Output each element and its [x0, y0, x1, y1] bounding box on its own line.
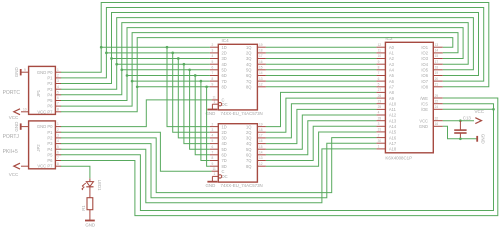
svg-text:8: 8: [212, 156, 214, 160]
IC2 SRAM K6X4008C1P body: [385, 42, 433, 153]
svg-text:14: 14: [435, 49, 439, 53]
wire PORTJ P0 to IC4 C clock: [61, 100, 212, 127]
svg-text:6Q: 6Q: [246, 153, 251, 158]
svg-text:7: 7: [57, 156, 59, 160]
svg-text:A14: A14: [389, 124, 397, 129]
svg-text:12: 12: [259, 162, 263, 166]
svg-text:21: 21: [435, 83, 439, 87]
svg-text:P2: P2: [47, 81, 53, 86]
svg-text:2: 2: [212, 43, 214, 47]
svg-text:7: 7: [212, 151, 214, 155]
svg-text:7D: 7D: [222, 79, 227, 84]
wire PORTC P0 to SRAM IO8: [61, 3, 489, 87]
svg-text:2: 2: [378, 133, 380, 137]
VCC supply arrow at PORTC: [14, 109, 20, 115]
wire IC5 1Q to SRAM A8: [266, 92, 377, 126]
junction dot C13 top: [459, 119, 462, 122]
svg-text:8: 8: [378, 66, 380, 70]
svg-text:10: 10: [378, 54, 382, 58]
junction dot 1D branch: [166, 46, 169, 49]
svg-text:15: 15: [259, 66, 263, 70]
svg-text:1: 1: [378, 145, 380, 149]
wire data line to IC4 3D: [112, 58, 210, 60]
wire PORTJ P1 to IC5 C clock: [61, 132, 212, 171]
wire PORTC P5 to SRAM IO3: [61, 28, 463, 101]
svg-text:6: 6: [57, 150, 59, 154]
svg-text:1: 1: [57, 122, 59, 126]
svg-text:VCC: VCC: [9, 115, 19, 120]
svg-text:8: 8: [212, 77, 214, 81]
IC4 OC pin stub (pin 1): [212, 103, 218, 105]
svg-text:18: 18: [259, 128, 263, 132]
wire branch to IC5 7D: [201, 81, 210, 160]
svg-text:4Q: 4Q: [246, 141, 251, 146]
IC5 OC pin bubble: [218, 175, 221, 178]
svg-text:IO2: IO2: [421, 51, 428, 56]
svg-text:A0: A0: [389, 45, 395, 50]
svg-text:A13: A13: [389, 118, 397, 123]
svg-text:32: 32: [435, 116, 439, 120]
svg-text:P3: P3: [47, 141, 53, 146]
junction dot P3/4D: [115, 63, 118, 66]
svg-text:3: 3: [57, 134, 59, 138]
wire data line to IC4 4D: [117, 63, 210, 65]
wire branch to IC5 3D: [178, 59, 210, 138]
svg-text:/OE: /OE: [421, 107, 428, 112]
IC4 left pin stubs 1D-8D: [210, 46, 218, 48]
svg-text:26: 26: [378, 94, 382, 98]
svg-text:4D: 4D: [222, 141, 227, 146]
wire PORTJ P2 to SRAM A16: [61, 138, 377, 193]
wire PORTC P4 to SRAM IO4: [61, 23, 468, 95]
wire SRAM GND: [443, 126, 477, 139]
svg-text:8Q: 8Q: [246, 164, 251, 169]
svg-text:1: 1: [214, 100, 216, 104]
wire IC5 8Q to SRAM A15: [266, 132, 377, 166]
svg-text:IO7: IO7: [421, 79, 428, 84]
svg-text:28: 28: [378, 116, 382, 120]
svg-text:5Q: 5Q: [246, 68, 251, 73]
IC5 left pin stubs 1D-8D: [210, 126, 218, 128]
svg-text:6: 6: [57, 96, 59, 100]
IC5 C pin stub (pin 11): [212, 170, 219, 172]
svg-text:A11: A11: [389, 107, 397, 112]
svg-text:5: 5: [212, 60, 214, 64]
svg-text:A7: A7: [389, 85, 395, 90]
wire IC5 7Q to SRAM A14: [266, 126, 377, 160]
svg-text:P5: P5: [47, 98, 53, 103]
svg-text:31: 31: [378, 128, 382, 132]
junction dot 7D branch: [200, 80, 203, 83]
svg-text:15: 15: [435, 54, 439, 58]
svg-text:A16: A16: [389, 135, 397, 140]
svg-text:A2: A2: [389, 56, 395, 61]
wire data line to IC4 5D: [122, 69, 210, 71]
svg-text:7: 7: [378, 71, 380, 75]
wire branch to IC5 1D: [167, 47, 210, 126]
svg-text:OC: OC: [222, 102, 228, 107]
IC2 right pin stubs IO1-IO8: [433, 46, 443, 48]
svg-text:4: 4: [212, 54, 214, 58]
ground symbol at SRAM: [476, 136, 478, 142]
ground symbol at R1: [85, 220, 95, 222]
wire IC4 6Q to SRAM A5: [266, 75, 377, 77]
svg-text:6: 6: [212, 66, 214, 70]
svg-text:6: 6: [212, 145, 214, 149]
svg-text:IO5: IO5: [421, 68, 428, 73]
junction dot 6D branch: [194, 74, 197, 77]
svg-text:P4: P4: [47, 92, 53, 97]
svg-text:IO3: IO3: [421, 56, 428, 61]
svg-text:2D: 2D: [222, 51, 227, 56]
resistor R1: [87, 198, 93, 210]
svg-text:LED1: LED1: [97, 180, 102, 191]
wire IC5 6Q to SRAM A13: [266, 121, 377, 155]
svg-text:IC2: IC2: [385, 36, 393, 41]
svg-text:6D: 6D: [222, 73, 227, 78]
svg-text:2: 2: [212, 122, 214, 126]
svg-text:7D: 7D: [222, 158, 227, 163]
svg-text:A3: A3: [389, 62, 395, 67]
svg-text:5D: 5D: [222, 68, 227, 73]
svg-text:5: 5: [57, 90, 59, 94]
svg-text:22: 22: [435, 99, 439, 103]
svg-text:3D: 3D: [222, 56, 227, 61]
connector JP2 PORTJ box: [29, 121, 56, 169]
junction dot 5D branch: [188, 68, 191, 71]
svg-text:3Q: 3Q: [246, 56, 251, 61]
svg-text:PORTC: PORTC: [3, 90, 21, 96]
ground symbol at PORTC: [20, 69, 22, 75]
svg-text:17: 17: [259, 54, 263, 58]
junction dot /OE on /CS net: [492, 108, 495, 111]
svg-text:GND: GND: [481, 134, 486, 144]
svg-text:P6: P6: [47, 158, 53, 163]
svg-text:VCC: VCC: [9, 172, 19, 177]
wire SRAM /OE branch: [443, 108, 494, 110]
junction dot P7/8D: [136, 85, 139, 88]
svg-text:A6: A6: [389, 79, 395, 84]
JP1 GND pin stub (pin 9): [21, 71, 29, 73]
junction dot 3D branch: [177, 57, 180, 60]
VCC supply arrow at PORTJ: [14, 163, 20, 169]
svg-text:7Q: 7Q: [246, 158, 251, 163]
svg-text:A4: A4: [389, 68, 395, 73]
IC5 OC ground wire: [211, 176, 213, 181]
svg-text:7: 7: [57, 102, 59, 106]
wire IC4 8Q to SRAM A7: [266, 86, 377, 88]
svg-text:IO8: IO8: [421, 85, 428, 90]
svg-text:PORTJ: PORTJ: [3, 134, 20, 140]
wire data line to IC4 2D: [106, 52, 209, 54]
svg-text:1D: 1D: [222, 124, 227, 129]
svg-text:JP1: JP1: [36, 89, 41, 97]
LED LED1: [86, 182, 93, 187]
svg-text:19: 19: [259, 43, 263, 47]
svg-text:2D: 2D: [222, 130, 227, 135]
junction dot P1/2D: [105, 52, 108, 55]
svg-text:10: 10: [23, 107, 27, 111]
svg-text:VCC: VCC: [419, 118, 428, 123]
connector JP1 right pin stubs P0-P7: [55, 71, 61, 73]
wire PORTJ P7 to LED1: [61, 166, 90, 178]
svg-text:VCC P7: VCC P7: [37, 164, 53, 169]
junction dot 4D branch: [183, 63, 186, 66]
svg-text:2Q: 2Q: [246, 130, 251, 135]
svg-text:14: 14: [259, 71, 263, 75]
IC4 74AC573 body: [218, 44, 257, 110]
svg-text:1Q: 1Q: [246, 45, 251, 50]
wire PORTC P3 to SRAM IO5: [61, 18, 474, 90]
junction dot P6/7D: [131, 80, 134, 83]
wire data line to IC4 7D: [132, 80, 210, 82]
capacitor C13: [459, 121, 461, 130]
svg-text:3Q: 3Q: [246, 136, 251, 141]
svg-text:13: 13: [259, 77, 263, 81]
svg-text:25: 25: [378, 105, 382, 109]
svg-text:24: 24: [435, 105, 439, 109]
junction dot P0/1D: [100, 46, 103, 49]
wire IC4 1Q to SRAM A0: [266, 46, 377, 48]
svg-text:9: 9: [24, 68, 26, 72]
wire SRAM VCC: [443, 120, 474, 122]
svg-text:GND: GND: [14, 66, 19, 77]
svg-text:17: 17: [435, 60, 439, 64]
svg-text:8: 8: [57, 107, 59, 111]
svg-text:A5: A5: [389, 73, 395, 78]
svg-text:A1: A1: [389, 51, 395, 56]
svg-text:A10: A10: [389, 101, 397, 106]
svg-text:P1: P1: [47, 76, 53, 81]
wire data line to IC4 1D: [101, 46, 210, 48]
junction dot P5/6D: [126, 74, 129, 77]
wire IC5 4Q to SRAM A11: [266, 109, 377, 143]
svg-text:P6: P6: [47, 104, 53, 109]
svg-text:14: 14: [259, 151, 263, 155]
IC2 power pin stubs VCC GND: [433, 120, 443, 122]
svg-text:1: 1: [214, 172, 216, 176]
wire branch to IC5 5D: [190, 70, 210, 149]
svg-text:11: 11: [378, 49, 382, 53]
IC5 74AC573 body: [218, 124, 257, 182]
svg-text:R1: R1: [81, 205, 86, 211]
svg-text:3D: 3D: [222, 136, 227, 141]
svg-text:16: 16: [259, 139, 263, 143]
wire PORTJ P3 to SRAM A17: [61, 143, 377, 198]
wire IC4 7Q to SRAM A6: [266, 80, 377, 82]
svg-text:15: 15: [259, 145, 263, 149]
connector JP2 right pin stubs P0-P7: [55, 126, 61, 128]
svg-text:17: 17: [259, 134, 263, 138]
svg-text:GND P0: GND P0: [37, 124, 53, 129]
IC5 right pin stubs 1Q-8Q: [257, 126, 266, 128]
svg-text:P1: P1: [47, 130, 53, 135]
svg-text:4: 4: [57, 85, 59, 89]
wire R1 to ground: [89, 210, 91, 221]
wire PORTJ P5 to SRAM /CS: [61, 104, 494, 211]
svg-text:IO6: IO6: [421, 73, 428, 78]
svg-text:2: 2: [57, 128, 59, 132]
IC4 OC ground wire: [211, 104, 213, 109]
wire IC5 3Q to SRAM A10: [266, 104, 377, 138]
JP2 VCC pin stub (pin 10): [21, 165, 29, 167]
svg-text:11: 11: [213, 167, 217, 171]
wire PORTJ P4 to SRAM A18: [61, 149, 377, 203]
IC2 control pin stubs /WE /CS /OE: [433, 97, 443, 99]
wire data line to IC4 6D: [127, 75, 210, 77]
svg-text:3: 3: [57, 79, 59, 83]
svg-text:27: 27: [378, 88, 382, 92]
svg-text:5: 5: [57, 145, 59, 149]
svg-text:A18: A18: [389, 147, 397, 152]
connector JP1 PORTC box: [29, 66, 56, 114]
svg-text:C13: C13: [463, 115, 472, 120]
ground symbol at IC4 OC: [207, 109, 217, 111]
svg-text:4: 4: [212, 134, 214, 138]
svg-text:A15: A15: [389, 130, 397, 135]
svg-text:PKII+5: PKII+5: [3, 149, 18, 155]
IC4 OC pin bubble: [218, 103, 221, 106]
svg-text:IC4: IC4: [222, 38, 230, 43]
svg-text:74XX-EU_74AC573N: 74XX-EU_74AC573N: [221, 183, 263, 188]
wire IC5 5Q to SRAM A12: [266, 115, 377, 149]
svg-text:7: 7: [212, 71, 214, 75]
svg-text:P4: P4: [47, 147, 53, 152]
svg-text:8: 8: [57, 162, 59, 166]
svg-text:16: 16: [435, 122, 439, 126]
wire LED1 to R1: [89, 187, 91, 198]
svg-text:6: 6: [378, 77, 380, 81]
IC5 OC pin stub (pin 1): [212, 175, 218, 177]
svg-text:9: 9: [378, 60, 380, 64]
junction dot 2D branch: [171, 52, 174, 55]
svg-text:18: 18: [259, 49, 263, 53]
junction dot P2/3D: [110, 57, 113, 60]
svg-text:18: 18: [435, 66, 439, 70]
svg-text:29: 29: [435, 94, 439, 98]
svg-text:4: 4: [57, 139, 59, 143]
IC2 left pin stubs A0-A18: [376, 46, 385, 48]
svg-text:IO4: IO4: [421, 62, 428, 67]
svg-text:12: 12: [378, 43, 382, 47]
IC4 right pin stubs 1Q-8Q: [257, 46, 266, 48]
wire IC4 4Q to SRAM A3: [266, 63, 377, 65]
svg-text:/CS: /CS: [421, 101, 428, 106]
svg-text:1Q: 1Q: [246, 124, 251, 129]
svg-text:4: 4: [378, 111, 380, 115]
svg-text:19: 19: [259, 122, 263, 126]
svg-text:P3: P3: [47, 87, 53, 92]
junction dot C13 bottom: [459, 137, 462, 140]
junction dot P4/5D: [120, 68, 123, 71]
svg-text:OC: OC: [222, 174, 228, 179]
svg-text:GND: GND: [206, 183, 216, 188]
svg-text:JP2: JP2: [36, 144, 41, 152]
wire PORTC P2 to SRAM IO6: [61, 13, 479, 84]
svg-text:3: 3: [212, 128, 214, 132]
svg-text:74XX-EU_74AC573N: 74XX-EU_74AC573N: [221, 111, 263, 116]
VCC supply arrow at SRAM: [475, 118, 481, 124]
svg-text:P2: P2: [47, 136, 53, 141]
svg-text:GND: GND: [419, 124, 428, 129]
svg-text:13: 13: [259, 156, 263, 160]
svg-text:GND P0: GND P0: [37, 70, 53, 75]
wire data line to IC4 8D: [137, 86, 210, 88]
junction dot 8D branch: [205, 85, 208, 88]
svg-text:P5: P5: [47, 152, 53, 157]
svg-text:6Q: 6Q: [246, 73, 251, 78]
svg-text:5: 5: [212, 139, 214, 143]
svg-text:5D: 5D: [222, 147, 227, 152]
wire branch to IC5 8D: [207, 87, 210, 166]
svg-text:4Q: 4Q: [246, 62, 251, 67]
svg-text:9: 9: [212, 83, 214, 87]
svg-text:8Q: 8Q: [246, 85, 251, 90]
JP1 VCC pin stub (pin 10): [21, 111, 29, 113]
svg-text:23: 23: [378, 99, 382, 103]
svg-text:8D: 8D: [222, 85, 227, 90]
wire branch to IC5 2D: [173, 53, 210, 132]
wire branch to IC5 4D: [184, 64, 210, 143]
svg-text:3: 3: [212, 49, 214, 53]
svg-text:/WE: /WE: [420, 96, 428, 101]
ground symbol at PORTJ: [20, 123, 22, 129]
wire IC5 2Q to SRAM A9: [266, 98, 377, 132]
svg-text:GND: GND: [85, 222, 95, 227]
svg-text:K6X4008C1P: K6X4008C1P: [385, 156, 412, 161]
wire PORTJ P6 to SRAM /WE: [61, 98, 498, 216]
svg-text:30: 30: [378, 139, 382, 143]
wire IC4 2Q to SRAM A1: [266, 52, 377, 54]
svg-text:A9: A9: [389, 96, 395, 101]
svg-text:20: 20: [435, 77, 439, 81]
svg-text:4D: 4D: [222, 62, 227, 67]
svg-text:VCC: VCC: [475, 109, 485, 114]
svg-text:6D: 6D: [222, 153, 227, 158]
svg-text:16: 16: [259, 60, 263, 64]
wire IC4 5Q to SRAM A4: [266, 69, 377, 71]
svg-text:A8: A8: [389, 90, 395, 95]
svg-text:VCC P7: VCC P7: [37, 109, 53, 114]
svg-text:5: 5: [378, 83, 380, 87]
wire branch to IC5 6D: [195, 76, 210, 155]
ground symbol at IC5 OC: [207, 181, 217, 183]
JP2 GND pin stub (pin 9): [21, 126, 29, 128]
wire PORTC P1 to SRAM IO7: [61, 8, 484, 82]
svg-text:7Q: 7Q: [246, 79, 251, 84]
svg-text:2: 2: [57, 74, 59, 78]
svg-text:1D: 1D: [222, 45, 227, 50]
svg-text:1: 1: [57, 68, 59, 72]
IC4 C pin stub (pin 11): [212, 99, 219, 101]
svg-text:2Q: 2Q: [246, 51, 251, 56]
svg-text:3: 3: [378, 122, 380, 126]
svg-text:9: 9: [212, 162, 214, 166]
svg-text:GND: GND: [14, 121, 19, 132]
wire PORTC P7 to SRAM IO1: [61, 38, 453, 112]
svg-text:5Q: 5Q: [246, 147, 251, 152]
svg-text:12: 12: [259, 83, 263, 87]
svg-text:19: 19: [435, 71, 439, 75]
svg-text:A17: A17: [389, 141, 397, 146]
wire PORTC P6 to SRAM IO2: [61, 33, 458, 107]
wire IC4 3Q to SRAM A2: [266, 58, 377, 60]
svg-text:A12: A12: [389, 113, 397, 118]
svg-text:IO1: IO1: [421, 45, 428, 50]
svg-text:13: 13: [435, 43, 439, 47]
